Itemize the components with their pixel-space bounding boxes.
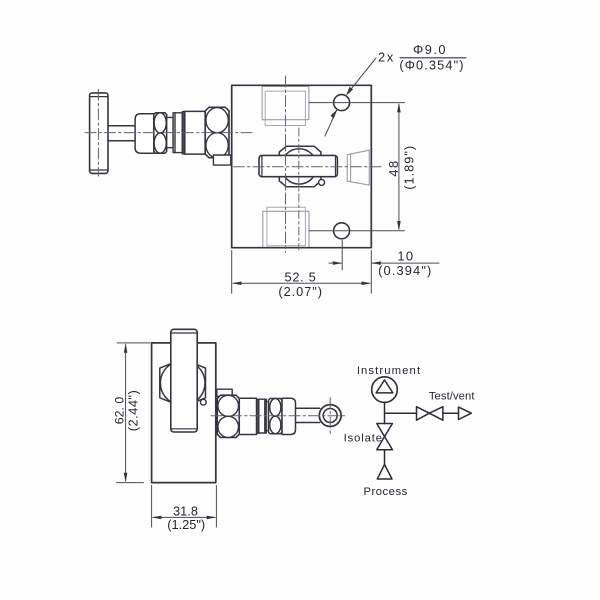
- left valve: collar: [167, 117, 173, 147]
- svg-text:(2.44"): (2.44"): [125, 390, 140, 431]
- centerline: left valve axis (horizontal): [85, 132, 252, 134]
- hole centerline bottom: [309, 230, 405, 232]
- svg-text:(1.25"): (1.25"): [167, 517, 205, 532]
- bottom valve: stem: [296, 408, 320, 422]
- svg-text:(0.394"): (0.394"): [378, 263, 432, 278]
- svg-text:Process: Process: [363, 486, 407, 498]
- svg-text:(1.89"): (1.89"): [402, 145, 417, 190]
- svg-text:(2.07"): (2.07"): [278, 284, 323, 299]
- centerline: T-handle (vertical): [97, 89, 99, 176]
- centerline: port axis (vertical): [285, 76, 287, 253]
- dimension 48 arrows: [397, 103, 401, 113]
- right outlet fitting (hidden, gray): [347, 150, 369, 185]
- center handle: bar (top view of T-handle): [259, 155, 337, 176]
- bottom view: hex bonnet (behind handle): [160, 359, 206, 407]
- svg-text:Isolate: Isolate: [344, 433, 383, 445]
- mounting hole bottom: [334, 223, 350, 239]
- left valve: big hex nut: [205, 107, 229, 158]
- left valve: ferrule band: [182, 111, 185, 154]
- port square top outer (hidden line): [262, 87, 309, 120]
- schematic: test/vent valve (bowtie): [417, 407, 443, 421]
- mounting hole top: [334, 95, 350, 111]
- dimension 62.0 arrows: [124, 343, 128, 353]
- left valve: step at block: [213, 155, 230, 165]
- center handle: hex nut (behind): [279, 146, 321, 186]
- svg-text:Instrument: Instrument: [357, 365, 421, 377]
- bottom valve: handle ring inner: [323, 409, 337, 423]
- centerline: bottom valve axis: [211, 415, 345, 417]
- dimension 31.8 extension lines: [152, 486, 217, 528]
- bottom valve: step at block: [217, 389, 232, 396]
- left valve: stem: [108, 126, 138, 141]
- centerline: ring vertical: [329, 398, 331, 434]
- schematic: isolate valve (vertical bowtie): [377, 424, 393, 450]
- svg-text:Test/vent: Test/vent: [429, 391, 475, 403]
- port square bottom outer (hidden line): [263, 211, 309, 247]
- center handle: pin circle: [319, 179, 325, 185]
- left valve: hex nut lens pair: [154, 113, 167, 153]
- bottom valve: bonnet (rounded right): [282, 398, 296, 434]
- bottom valve: big hex nut: [217, 395, 239, 437]
- svg-text:10: 10: [397, 249, 414, 264]
- dimension 52.5 arrows: [232, 282, 242, 286]
- left valve: bonnet (rounded): [135, 114, 154, 153]
- dimension 31.8 arrows: [152, 516, 162, 520]
- left valve: T-handle bar: [90, 93, 108, 173]
- hole callout leader: [325, 58, 376, 136]
- bottom view: T-handle (vertical): [171, 329, 197, 432]
- bottom view: manifold block: [152, 343, 216, 483]
- bottom valve: body: [239, 398, 256, 434]
- schematic: instrument triangle: [376, 380, 393, 393]
- svg-text:Φ9.0: Φ9.0: [413, 42, 447, 57]
- schematic: vent triangle: [459, 407, 472, 419]
- svg-text:52. 5: 52. 5: [285, 270, 317, 285]
- bottom valve: handle ring outer: [319, 405, 341, 427]
- dimension 10 arrows: [329, 262, 439, 264]
- schematic: wire instrument to tee: [384, 402, 386, 423]
- centerline: block horizontal axis: [234, 166, 383, 168]
- left valve: gland piece: [173, 113, 182, 153]
- bottom valve: ferrule band: [257, 399, 259, 433]
- bottom valve: hex nut lens pair: [269, 399, 283, 434]
- schematic: process triangle: [377, 465, 392, 480]
- bottom view: pin circle: [200, 399, 206, 405]
- schematic: wire valve to vent: [443, 412, 459, 414]
- schematic: wire isolate to process: [384, 450, 386, 465]
- bottom valve: gland piece: [259, 399, 267, 433]
- port square top inner (hidden line): [265, 91, 305, 125]
- schematic: instrument circle: [372, 377, 398, 403]
- center handle: bonnet circle (behind): [281, 149, 316, 184]
- svg-text:2x: 2x: [378, 50, 395, 65]
- bottom valve: collar: [266, 402, 268, 431]
- dimension 48 line: [398, 105, 400, 230]
- manifold block body (top view): [232, 85, 372, 247]
- port square bottom inner (hidden line): [267, 207, 306, 246]
- hidden line: center valve axis (vertical dashed): [298, 128, 300, 250]
- svg-text:(Φ0.354"): (Φ0.354"): [399, 58, 464, 73]
- svg-text:48: 48: [386, 159, 401, 176]
- hole centerline top: [309, 102, 405, 104]
- dimension 10 extension line: [341, 241, 343, 270]
- dimension 62.0 extension lines: [117, 343, 151, 483]
- left valve: body: [185, 111, 205, 154]
- dimension 52.5 extension lines: [232, 251, 372, 294]
- schematic: wire tee to test valve: [385, 412, 417, 414]
